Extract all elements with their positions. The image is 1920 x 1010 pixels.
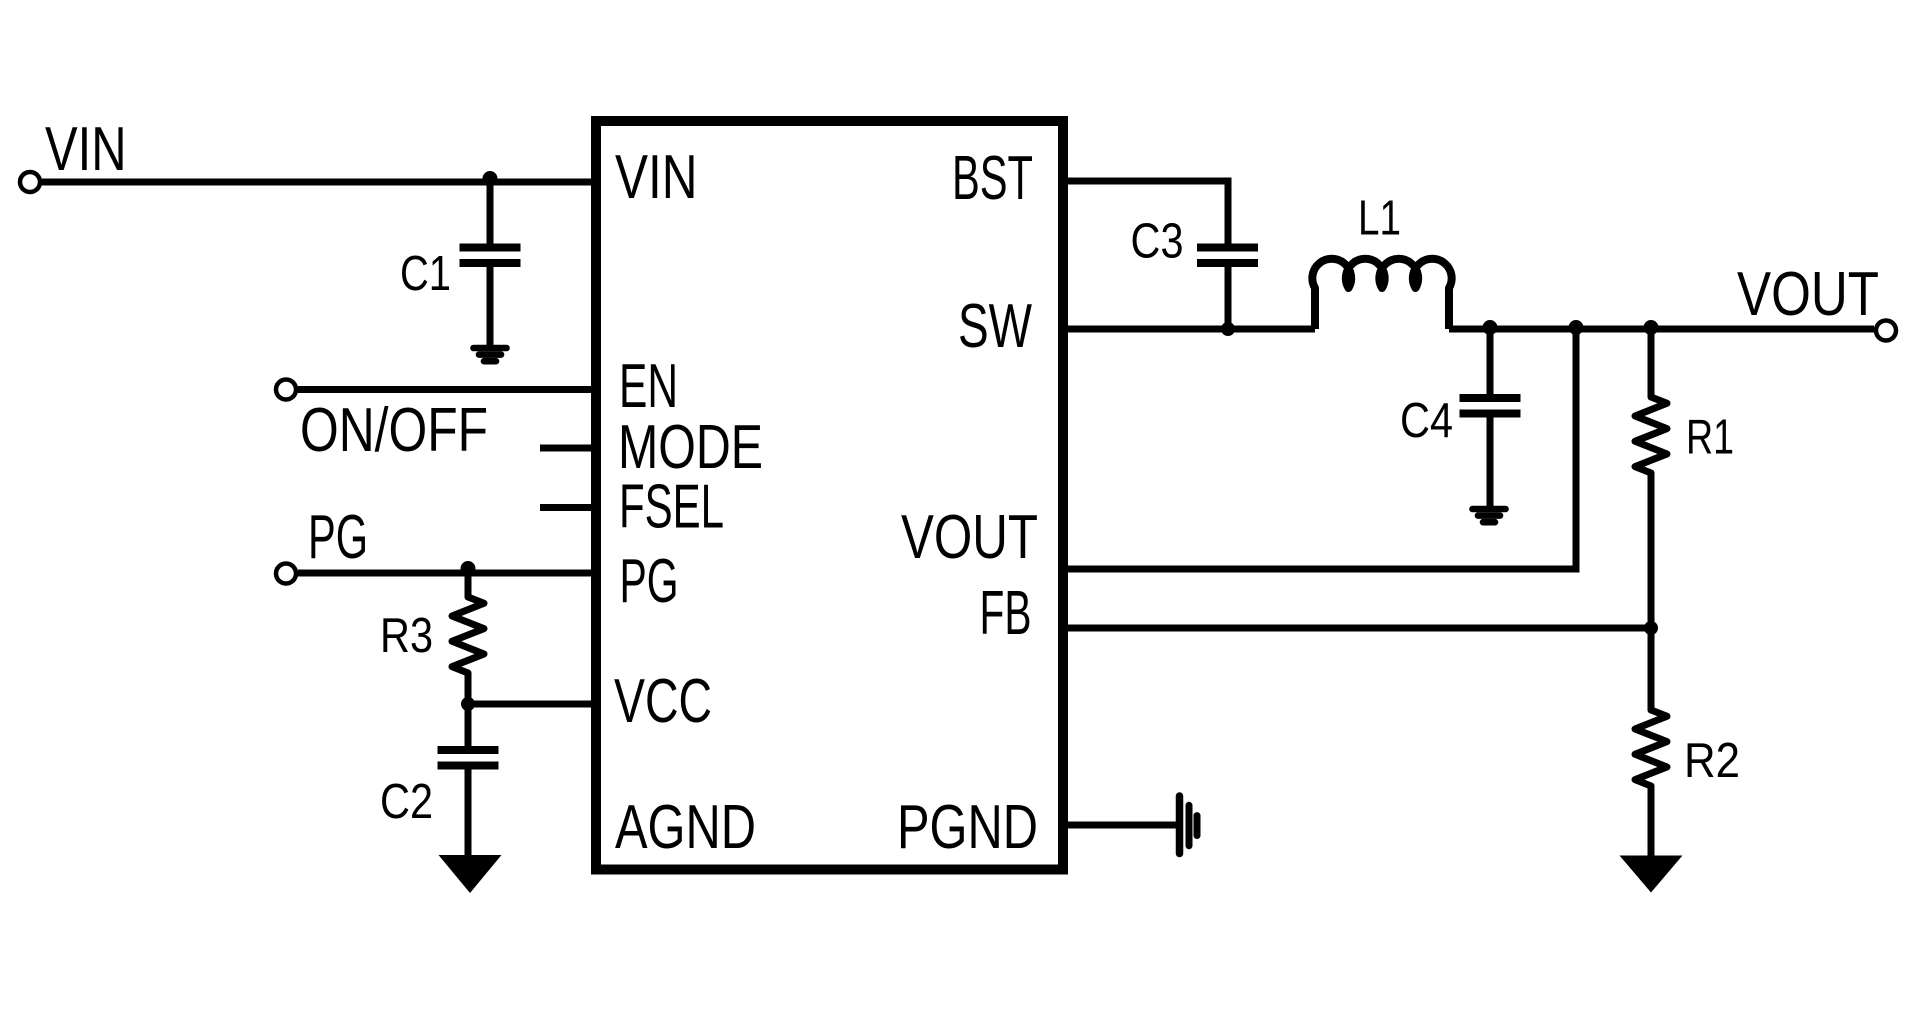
node junction SW/C3 bbox=[1221, 322, 1235, 336]
svg-text:SW: SW bbox=[958, 292, 1032, 361]
node PG terminal bbox=[276, 564, 296, 584]
ground C2 bbox=[439, 855, 502, 893]
resistor R2 bbox=[1635, 628, 1667, 856]
wire PGND bbox=[1063, 822, 1179, 829]
svg-text:VIN: VIN bbox=[615, 143, 698, 212]
wire C2 bottom bbox=[465, 766, 472, 857]
wire PG bbox=[298, 570, 596, 577]
capacitor C4 bbox=[1460, 394, 1521, 418]
wire C2 top bbox=[465, 704, 472, 750]
capacitor C1 bbox=[460, 244, 521, 268]
svg-text:FB: FB bbox=[980, 579, 1032, 648]
svg-text:BST: BST bbox=[952, 144, 1033, 213]
resistor R1 bbox=[1635, 329, 1667, 628]
wire VCC bbox=[468, 701, 596, 708]
capacitor C2 bbox=[438, 746, 499, 770]
svg-text:C2: C2 bbox=[380, 774, 433, 829]
svg-text:FSEL: FSEL bbox=[619, 473, 724, 542]
svg-text:R1: R1 bbox=[1686, 410, 1734, 465]
wire BST bbox=[1063, 181, 1228, 247]
capacitor C3 bbox=[1197, 244, 1258, 268]
wire VIN input bbox=[42, 179, 596, 186]
wire C1 top bbox=[487, 182, 494, 247]
svg-text:C3: C3 bbox=[1131, 214, 1184, 269]
node VOUT terminal bbox=[1876, 321, 1896, 341]
svg-text:L1: L1 bbox=[1358, 191, 1401, 246]
svg-text:AGND: AGND bbox=[615, 793, 756, 862]
wire C4 top bbox=[1487, 329, 1494, 398]
ground C4 bbox=[1473, 509, 1506, 522]
svg-text:EN: EN bbox=[619, 352, 678, 421]
wire VOUT output bbox=[1449, 326, 1874, 333]
wire FSEL stub bbox=[540, 504, 596, 511]
inductor L1 bbox=[1312, 259, 1451, 329]
svg-text:C1: C1 bbox=[400, 246, 451, 301]
wire C4 bottom bbox=[1487, 414, 1494, 507]
svg-text:VIN: VIN bbox=[45, 115, 127, 184]
node junction R1 top bbox=[1644, 320, 1659, 335]
wire FB bbox=[1063, 625, 1651, 632]
node junction VIN/C1 bbox=[483, 171, 498, 186]
wire C3 bottom bbox=[1225, 263, 1232, 329]
svg-text:PG: PG bbox=[308, 503, 368, 572]
node junction FB/R2 bbox=[1644, 621, 1658, 635]
IC U1 body bbox=[596, 121, 1063, 870]
svg-text:VCC: VCC bbox=[614, 667, 712, 736]
ground PGND bbox=[1180, 796, 1198, 854]
svg-text:R2: R2 bbox=[1684, 733, 1740, 788]
wire EN bbox=[298, 386, 596, 393]
node VIN terminal bbox=[20, 172, 40, 192]
svg-text:ON/OFF: ON/OFF bbox=[300, 396, 488, 465]
ground C1 bbox=[474, 348, 507, 361]
node junction PG/R3 bbox=[461, 561, 476, 576]
node junction C4 bbox=[1483, 320, 1498, 335]
wire VOUT pin feedback bbox=[1063, 329, 1576, 569]
wire MODE stub bbox=[540, 445, 596, 452]
svg-text:PGND: PGND bbox=[897, 793, 1038, 862]
svg-text:VOUT: VOUT bbox=[901, 503, 1038, 572]
svg-text:R3: R3 bbox=[380, 608, 433, 663]
svg-text:VOUT: VOUT bbox=[1737, 260, 1879, 329]
svg-text:C4: C4 bbox=[1400, 393, 1453, 448]
svg-text:PG: PG bbox=[620, 547, 679, 616]
ground R2 bbox=[1620, 856, 1683, 893]
node junction VCC/C2 bbox=[461, 697, 475, 711]
resistor R3 bbox=[452, 573, 484, 704]
wire C1 bottom bbox=[487, 263, 494, 345]
node junction VOUT-feedback bbox=[1569, 320, 1584, 335]
node ON/OFF terminal bbox=[276, 380, 296, 400]
wire SW bbox=[1063, 326, 1315, 333]
